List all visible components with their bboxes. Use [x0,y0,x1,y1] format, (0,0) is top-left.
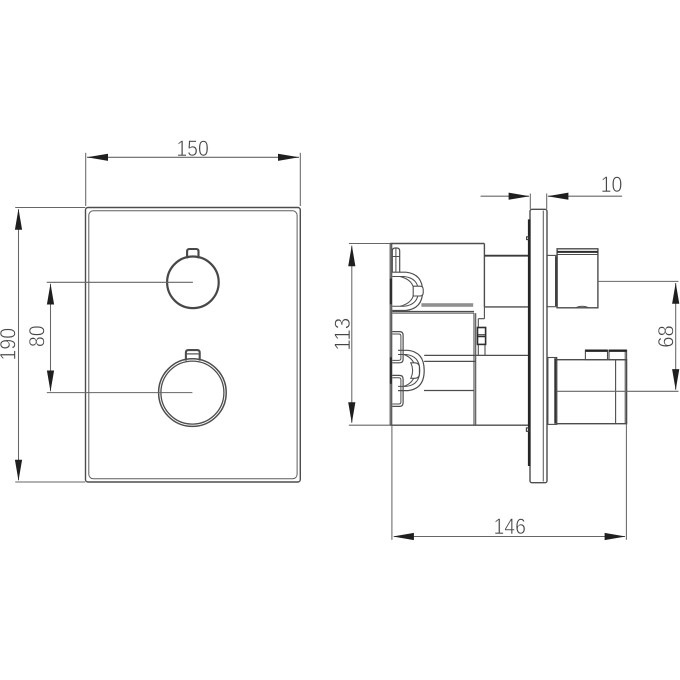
cartridge nut stem [478,307,485,356]
upper clamp left sliver [390,279,392,305]
upper block bottom rails [421,304,473,306]
dim 68 extension line bottom (knob centerline) [558,390,679,392]
bottom knob inner face line [615,360,617,424]
mounting tab middle [392,332,403,363]
dim 190 extension line bottom [15,481,85,483]
bottom knob right cap inner line [624,352,626,424]
dim 10 line left segment [481,195,529,197]
cartridge neck edges [474,313,476,425]
mounting tab top inner line [393,248,400,272]
thermostat knob (upper) circle [167,257,219,309]
dim 113 extension line bottom [349,424,390,426]
arrow 190 bottom [15,460,22,481]
dim 190 extension line top [15,207,85,209]
bottom knob rosette thick edge [554,358,556,423]
arrow 150 right [278,154,299,161]
volume knob (lower) outer circle [159,359,227,427]
lower D-clamp outer [398,350,424,390]
bottom knob button B thick top [609,350,627,352]
bottom knob button B [609,350,627,360]
lower D-clamp inner contour 2 [404,355,415,387]
arrow 146 left [393,533,414,540]
thermostat knob tab [187,249,198,258]
top knob top band lower line [557,254,598,256]
dim 150 extension line right [299,153,301,206]
lower block top edges [424,355,528,361]
bottom knob body [557,360,627,424]
svg-text:146: 146 [493,514,526,539]
top knob rosette thick edge [555,256,557,306]
upper D-clamp inner contour 2 [400,277,414,307]
volume knob tab outer [186,350,200,361]
upper D-clamp notch [413,286,423,296]
svg-text:68: 68 [653,325,678,348]
valve body step line to plate [484,306,528,308]
volume knob inner circle [161,361,224,424]
mounting tab lower [392,375,403,406]
arrow 150 left [87,154,108,161]
arrow 113 bottom [348,402,355,423]
volume knob tab inner line [187,353,199,355]
svg-text:150: 150 [176,136,209,161]
dim 150 extension line left [85,153,87,206]
mounting tab lower inner [392,378,401,404]
dim 10 extension line right [546,194,548,210]
dim 68 line [675,283,677,390]
arrow 80 top [47,284,54,305]
valve body bottom edge [390,424,528,426]
upper D-clamp outer [392,272,422,310]
wall plate outline [530,209,547,482]
dim 113 extension line top [349,243,390,245]
dim 10 extension line left [529,194,531,210]
upper block bottom edge (double) [392,311,474,313]
dim 146 line [394,536,625,538]
arrow 68 bottom [672,369,679,390]
dim 150 line [87,156,299,158]
hex nut chamfer lines [478,335,486,337]
arrow 10 left (points right) [509,193,530,200]
valve body top edge [390,243,484,245]
arrow 10 right (points left) [547,193,568,200]
top knob body [557,249,598,308]
dim 80 leader line upper (to knob center) [47,281,193,283]
arrow 113 top [348,245,355,266]
top knob top band thick line [557,251,598,253]
dim 10 line right segment [548,195,622,197]
lower D-clamp inner contour 1 [398,355,420,387]
dim 113 line [351,246,353,423]
mounting tab top [392,248,399,273]
arrow 80 bottom [47,371,54,392]
svg-text:113: 113 [330,318,355,351]
bottom knob button A [585,350,607,360]
dim 80 line [50,284,52,391]
body flange dark band on plate [528,219,531,466]
svg-text:80: 80 [25,325,50,347]
dim 146 extension line right [625,424,627,540]
wall plate face line [542,211,544,482]
bottom knob rosette [548,358,557,425]
top knob rosette [547,255,557,306]
lower block mid line [424,390,474,392]
flange screw tick bottom [526,428,529,431]
dim 146 extension line left [391,425,393,540]
top knob bottom edge arc detail [576,306,590,308]
upper D-clamp inner contour 1 [392,277,418,307]
front plate outer outline [86,208,301,483]
lower clamp left sliver [390,357,392,384]
mounting tab middle inner [392,334,401,360]
valve body left edge (double line) [390,244,392,426]
dim 68 extension line top (knob centerline) [598,280,679,282]
svg-text:10: 10 [601,172,623,197]
svg-text:190: 190 [0,328,21,361]
cartridge housing top edge [484,255,528,257]
valve body right edge upper [483,244,485,307]
hex nut [478,328,486,345]
arrow 190 top [15,209,22,230]
flange screw tick top [527,237,530,240]
dim 190 line [18,209,20,480]
front plate inner edge line [89,211,297,479]
arrow 68 top [672,283,679,304]
dim 80 leader line lower (to knob center) [47,392,193,394]
arrow 146 right [605,533,626,540]
lower D-clamp white notch [411,363,420,379]
bottom knob button A thick top [585,350,607,352]
